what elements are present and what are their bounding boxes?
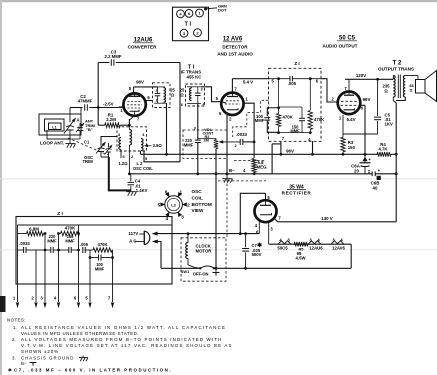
svg-text:6: 6 (165, 190, 168, 195)
T1 secondary tuning cap (195, 92, 201, 94)
svg-text:6.4V: 6.4V (347, 117, 356, 122)
transformer T1 pinout box (173, 7, 209, 41)
oscillator coil L2 dashed box (117, 127, 147, 151)
T2 primary bottom to 130V (392, 97, 394, 101)
svg-text:✱: ✱ (8, 367, 12, 372)
svg-text:4.7K: 4.7K (378, 146, 388, 151)
tube 50C5 V3 envelope (338, 92, 361, 115)
svg-text:96V: 96V (136, 79, 144, 84)
GRN DOT marker (204, 8, 207, 11)
osc coil bottom view circle (165, 196, 183, 214)
svg-text:MMF: MMF (184, 143, 194, 148)
svg-text:MOTOR: MOTOR (196, 249, 213, 254)
svg-text:RECTIFIER: RECTIFIER (282, 191, 312, 196)
50C5 cathode (344, 108, 355, 110)
svg-text:ALL RESISTANCE VALUES IN OHMS: ALL RESISTANCE VALUES IN OHMS 1/2 WATT, … (21, 325, 226, 330)
resistor R5 99ohm 4.5W (294, 242, 308, 247)
12AU6 plate (129, 95, 140, 97)
svg-text:50C5: 50C5 (277, 245, 288, 250)
variable capacitor C1 section A (69, 116, 71, 122)
AC neutral wire (158, 242, 161, 269)
clock motor dashed box (181, 238, 226, 281)
12AV6 plate (227, 96, 238, 98)
tube 35W4 V4 envelope (255, 200, 277, 222)
B- return line (131, 173, 372, 175)
12AU6 pin leads (133, 87, 135, 94)
L2 pin leads (128, 127, 130, 129)
wire C3 right leg down (osc feedback) (179, 63, 181, 162)
L2 winding center (129, 130, 131, 146)
svg-text:AUDIO OUTPUT: AUDIO OUTPUT (323, 44, 358, 49)
svg-text:V.T.V.M. LINE VOLTAGE SET AT 1: V.T.V.M. LINE VOLTAGE SET AT 117 VAC. RE… (21, 343, 233, 348)
svg-text:DETECTOR: DETECTOR (222, 45, 248, 50)
svg-text:.0033: .0033 (236, 132, 247, 137)
svg-text:SW1: SW1 (181, 269, 190, 274)
notes chassis ground symbol (82, 356, 84, 358)
osc trimmer (108, 143, 110, 148)
svg-text:Ω: Ω (410, 89, 413, 93)
120V wire 50C5 plate to T2 (345, 78, 393, 80)
svg-text:2.2 MMF: 2.2 MMF (105, 54, 122, 59)
wire loop to tuning line (80, 108, 82, 115)
wire osc gang top (100, 138, 102, 142)
R2 wiper arrow (220, 141, 241, 143)
svg-text:47MMF: 47MMF (78, 99, 93, 104)
svg-text:OSC COIL: OSC COIL (133, 166, 153, 171)
svg-text:MEG.: MEG. (257, 164, 268, 169)
svg-text:1: 1 (180, 190, 183, 195)
dashed B- boundary (218, 180, 266, 182)
svg-text:1.2Ω: 1.2Ω (119, 161, 129, 166)
tube 12AU6 V1 envelope (123, 93, 145, 115)
output transformer T2 (393, 76, 395, 98)
svg-text:455 KC: 455 KC (187, 74, 203, 79)
svg-text:.66: .66 (409, 84, 414, 88)
svg-text:MMF: MMF (95, 266, 105, 271)
svg-text:CONVERTER: CONVERTER (128, 44, 158, 49)
svg-text:A: A (77, 118, 80, 123)
svg-text:SHOWN ±20%: SHOWN ±20% (21, 349, 59, 354)
Z1 detail pin wires (17, 225, 19, 302)
capacitor C5 .01 1KV (377, 79, 379, 116)
T1 primary winding (164, 88, 166, 103)
capacitor C6B 40 electrolytic (368, 170, 370, 172)
svg-text:COIL: COIL (192, 195, 203, 200)
svg-text:5: 5 (158, 202, 161, 207)
svg-text:96V: 96V (286, 148, 294, 153)
capacitor C6A 20 electrolytic (364, 154, 366, 162)
IF transformer T1 primary (dashed can) (153, 83, 171, 108)
svg-text:VIEW: VIEW (192, 208, 205, 213)
Z1 pin leads to bus (280, 141, 282, 154)
12AV6 grid dashed (226, 100, 239, 102)
dashed boundary near 12AV6 grid (233, 100, 269, 137)
volume control dashed enclosure (183, 130, 227, 159)
svg-text:1KV: 1KV (385, 122, 393, 127)
svg-text:OFF-ON: OFF-ON (193, 272, 209, 277)
svg-text:3.: 3. (12, 355, 16, 360)
svg-text:1.4KV: 1.4KV (136, 188, 148, 193)
wire T1 primary to 96V bus (166, 103, 168, 154)
switch SW1 (188, 259, 200, 269)
12AV6 pin leads (231, 79, 233, 93)
svg-text:DOT: DOT (218, 8, 227, 13)
resistor R3 150 (342, 115, 344, 137)
svg-text:150: 150 (348, 145, 356, 150)
svg-text:+: + (378, 168, 381, 173)
svg-text:12AU6: 12AU6 (309, 245, 323, 250)
wire C3 left leg down to C2 node and R1 (97, 63, 99, 126)
wire 12AV6 plate 5.4V to Z1 pin 5 (232, 78, 268, 80)
svg-text:AND 1ST AUDIO: AND 1ST AUDIO (217, 51, 253, 56)
svg-text:CHASSIS GROUND: CHASSIS GROUND (21, 355, 74, 360)
130V wire (278, 221, 397, 223)
wire T1 pin3 to 12AV6 diode (201, 87, 222, 102)
svg-text:LOOP ANT.: LOOP ANT. (40, 141, 64, 146)
wire T1 pin4 down to volume control (197, 104, 199, 141)
vol control to switch dashed link (226, 161, 228, 238)
speaker (405, 75, 418, 77)
svg-text:470K: 470K (314, 117, 325, 122)
svg-text:BOTTOM: BOTTOM (192, 202, 212, 207)
35W4 pin leads (265, 193, 267, 200)
IF transformer T1 secondary (dashed can) (186, 84, 205, 106)
svg-text:120V: 120V (356, 73, 366, 78)
svg-text:40: 40 (373, 186, 378, 191)
loop antenna L1 (39, 114, 81, 135)
capacitor C7 .025 500V (245, 234, 247, 248)
T2 secondary bottom return (396, 97, 405, 101)
ant trimmer B (79, 123, 81, 126)
svg-text:12AV6: 12AV6 (332, 245, 345, 250)
12AV6 cathode (227, 108, 238, 110)
svg-text:3: 3 (181, 215, 184, 220)
svg-text:-2.5V: -2.5V (103, 101, 114, 106)
svg-text:3.5Ω: 3.5Ω (153, 143, 163, 148)
T1 primary tuning cap (155, 92, 161, 94)
96V B+ bus (141, 153, 378, 155)
svg-text:MMF: MMF (255, 118, 265, 123)
tube 12AV6 V2 envelope (221, 93, 243, 115)
AC hot wire (158, 233, 260, 235)
svg-text:2.2M: 2.2M (106, 117, 116, 122)
svg-text:6.8M: 6.8M (29, 226, 39, 231)
svg-text:L2: L2 (171, 202, 176, 207)
resistor 6.8 MEG grid return (253, 142, 255, 158)
svg-text:.0033: .0033 (19, 241, 30, 246)
svg-text:"B": "B" (86, 127, 93, 132)
svg-text:5.4 V: 5.4 V (243, 79, 253, 84)
B- ground at switch (215, 268, 217, 272)
clock motor coil (187, 234, 189, 243)
svg-text:Z I: Z I (294, 61, 299, 66)
35W4 cathode (260, 213, 272, 215)
svg-text:470K: 470K (65, 225, 76, 230)
Z1 470K resistor left (278, 79, 280, 114)
svg-text:2.: 2. (12, 337, 16, 342)
notes B- symbol (30, 362, 37, 364)
12AU6 grids dashed (128, 101, 142, 103)
chassis ground below C4 (126, 191, 130, 193)
svg-text:500V: 500V (252, 252, 262, 257)
svg-text:470K: 470K (283, 115, 294, 120)
svg-text:MMF: MMF (65, 239, 75, 244)
svg-text:+: + (368, 157, 371, 162)
35W4 plate (260, 204, 271, 206)
svg-text:.005: .005 (80, 242, 89, 247)
svg-text:2: 2 (187, 202, 190, 207)
svg-text:OUTPUT TRANS: OUTPUT TRANS (378, 66, 414, 71)
svg-text:MMF: MMF (47, 239, 57, 244)
svg-text:T I: T I (185, 22, 192, 28)
svg-text:.005: .005 (288, 81, 297, 86)
Z1 internal top wire with .005 cap (269, 78, 290, 80)
50C5 pin leads (348, 79, 350, 91)
12AU6 cathode (130, 110, 140, 112)
Z1 pin arrows (16, 303, 19, 309)
svg-text:OSC: OSC (192, 189, 203, 194)
50C5 grids dashed (341, 100, 357, 102)
12AV6 grid wire pin 1 (243, 103, 254, 142)
variable capacitor C1 section C (osc) (100, 142, 102, 147)
AC return bus (161, 267, 200, 269)
heater string wire (269, 243, 352, 245)
wire Z1 pin7 branch to B- (272, 143, 281, 145)
svg-text:CLOCK: CLOCK (196, 243, 212, 248)
svg-text:4.5W: 4.5W (295, 256, 306, 261)
L2 winding left (119, 138, 121, 150)
svg-text:C7, .033 MF − 600 V. IN LATER: C7, .033 MF − 600 V. IN LATER PRODUCTION… (14, 367, 172, 372)
svg-text:1.: 1. (13, 325, 17, 330)
wire osc gang to L2 pin 3 (101, 137, 117, 143)
svg-text:117V: 117V (129, 231, 139, 236)
Z1 470K resistor right (309, 79, 311, 110)
L2 winding right (141, 139, 143, 151)
wire L2 pin5 to C3 line (144, 151, 180, 162)
T1 secondary winding (190, 88, 192, 101)
svg-text:130 V: 130 V (321, 216, 333, 221)
50C5 plate (344, 94, 354, 96)
svg-text:ALL VOLTAGES MEASURED FROM B−T: ALL VOLTAGES MEASURED FROM B−TO POINTS I… (21, 337, 222, 342)
svg-text:NOTES:: NOTES: (7, 318, 26, 323)
mechanical gang dashed link C1 (68, 138, 108, 155)
svg-text:B−: B− (21, 361, 27, 366)
svg-text:20: 20 (354, 168, 359, 173)
50C5 screen wire to 96V bus (364, 105, 366, 154)
svg-text:96V: 96V (363, 97, 371, 102)
svg-text:B−: B− (229, 168, 235, 173)
svg-text:VALUES IN MFD UNLESS OTHERWISE: VALUES IN MFD UNLESS OTHERWISE STATED. (21, 331, 139, 336)
svg-text:A C: A C (129, 238, 136, 243)
svg-text:C1: C1 (84, 140, 90, 145)
heavy wire osc gang to C4 ground (101, 156, 109, 158)
heater return (350, 244, 352, 268)
capacitor C4 .01 1.4KV (129, 173, 130, 175)
chassis ground below gang (66, 143, 70, 145)
chassis ground on B- line (226, 174, 228, 178)
svg-text:470K: 470K (97, 242, 107, 247)
svg-text:TRIM: TRIM (83, 159, 94, 164)
Z1 couplate dashed box (269, 68, 322, 141)
Z1 detail internal top bus (18, 224, 173, 226)
